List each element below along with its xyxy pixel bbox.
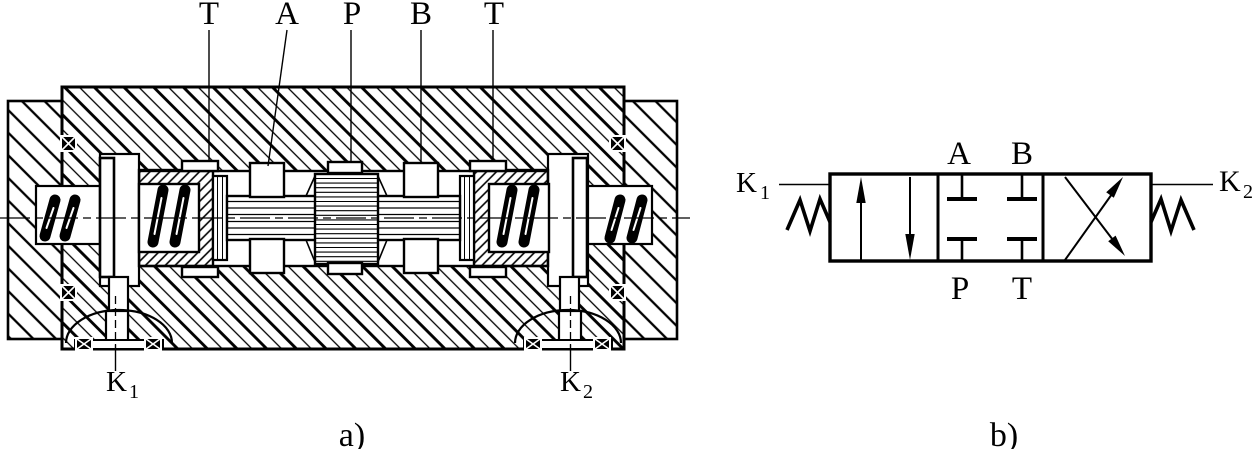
K1 pilot line	[779, 184, 830, 186]
svg-text:2: 2	[1243, 181, 1253, 203]
port B symbol	[1007, 175, 1037, 199]
spool left end land	[213, 176, 227, 260]
left pocket spring	[153, 190, 185, 242]
right pilot channel	[560, 277, 579, 333]
cross arrow down	[1065, 177, 1125, 256]
leader T1	[208, 30, 210, 161]
svg-text:T: T	[199, 0, 219, 32]
right cap spring chamber	[588, 186, 652, 244]
leader T2	[492, 30, 494, 161]
K1 channel	[106, 311, 128, 342]
K1 strip seal right	[144, 337, 162, 351]
right spring seat bracket	[573, 158, 587, 277]
port T left boss	[182, 161, 218, 171]
svg-text:P: P	[951, 271, 969, 307]
port A boss	[250, 163, 284, 197]
spool center land	[306, 174, 387, 264]
port T symbol	[1007, 239, 1037, 261]
left end cap	[8, 101, 62, 339]
svg-text:1: 1	[129, 381, 139, 403]
K2 strip seal left	[524, 337, 542, 351]
right spring cup	[474, 170, 549, 266]
left return spring	[787, 199, 830, 231]
K2 leader	[570, 296, 572, 345]
seal bottom-left	[60, 284, 77, 301]
K2 dome arc	[515, 310, 621, 343]
svg-text:A: A	[275, 0, 299, 32]
svg-text:T: T	[484, 0, 504, 32]
left spring cup	[139, 170, 213, 266]
symbol divider left	[937, 174, 940, 261]
right end cap	[624, 101, 677, 339]
spool shaft	[227, 196, 460, 240]
up arrow	[856, 177, 865, 260]
K1 leader	[115, 296, 117, 345]
bottom T left boss	[182, 267, 218, 277]
svg-text:2: 2	[583, 381, 593, 403]
port P symbol	[947, 239, 977, 261]
leader P	[350, 30, 352, 162]
right cap spring	[610, 200, 642, 238]
valve main body	[62, 87, 624, 349]
svg-text:B: B	[410, 0, 432, 32]
left cap spring chamber	[36, 186, 100, 244]
centerline fig a	[0, 217, 690, 219]
spool right end land	[460, 176, 474, 260]
svg-text:T: T	[1012, 271, 1032, 307]
bore cavity	[139, 171, 548, 266]
svg-text:K: K	[736, 167, 757, 199]
svg-text:a): a)	[339, 417, 365, 449]
left spring seat bracket	[100, 158, 114, 277]
port B boss	[404, 163, 438, 197]
port A symbol	[947, 175, 977, 199]
left pocket zone	[100, 154, 139, 286]
svg-text:A: A	[947, 136, 971, 172]
right pocket zone	[548, 154, 588, 286]
symbol body	[830, 174, 1151, 261]
cross arrow up	[1065, 177, 1123, 260]
seal bottom-right	[609, 284, 626, 301]
svg-text:K: K	[106, 366, 127, 398]
K2 base strip	[524, 340, 612, 349]
svg-text:B: B	[1011, 136, 1033, 172]
svg-text:P: P	[343, 0, 361, 32]
K1 strip seal left	[75, 337, 93, 351]
down arrow	[905, 177, 914, 260]
bottom B boss	[404, 239, 438, 273]
svg-text:b): b)	[990, 417, 1018, 449]
svg-text:K: K	[1219, 165, 1241, 198]
K1 dome arc	[66, 310, 172, 343]
seal top-right	[609, 135, 626, 152]
right pocket spring	[502, 190, 534, 242]
leader A	[268, 30, 287, 166]
port P boss	[328, 162, 362, 173]
K2 pilot line	[1151, 184, 1213, 186]
port T right boss	[470, 161, 506, 171]
leader B	[420, 30, 422, 163]
right return spring	[1151, 199, 1194, 231]
bottom T right boss	[470, 267, 506, 277]
left cap spring	[45, 200, 75, 236]
K2 strip seal right	[593, 337, 611, 351]
left pilot channel	[109, 277, 128, 333]
svg-text:1: 1	[760, 182, 770, 204]
svg-text:K: K	[560, 366, 581, 398]
seal top-left	[60, 135, 77, 152]
K1 base strip	[75, 340, 163, 349]
bottom A boss	[250, 239, 284, 273]
K2 channel	[559, 311, 581, 342]
symbol divider right	[1042, 174, 1045, 261]
bottom P boss	[328, 263, 362, 274]
